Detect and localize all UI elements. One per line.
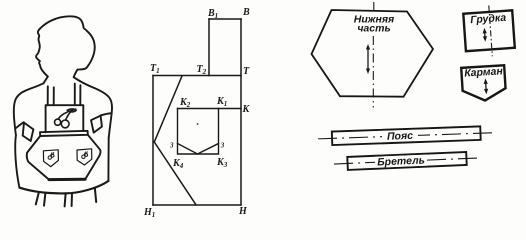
svg-text:Пояс: Пояс [387, 130, 414, 143]
bib cherry motif [55, 109, 77, 128]
right fist [91, 116, 102, 133]
right pocket cherry [82, 151, 88, 158]
svg-text:К3: К3 [216, 157, 228, 169]
left pocket [43, 150, 58, 167]
strap dashdot [334, 158, 482, 164]
child figure [14, 16, 112, 206]
piece hexagon lower part [312, 10, 434, 97]
svg-text:3: 3 [220, 142, 225, 150]
left pocket cherry [48, 152, 54, 159]
wire bib left B1-T2 [208, 19, 210, 76]
piece bib square [463, 4, 515, 58]
bib left strap [48, 86, 54, 105]
hexagon grain dashdot [372, 2, 375, 108]
svg-text:Бретель: Бретель [377, 155, 425, 169]
wire left edge T1-H1 [152, 76, 154, 206]
label belt text [382, 130, 418, 142]
piece strap strip [334, 151, 482, 170]
svg-text:Карман: Карман [464, 65, 504, 79]
dress skirt left [15, 135, 19, 187]
wire bottom line H1-H [153, 204, 241, 206]
waistband [40, 131, 88, 136]
svg-text:К4: К4 [172, 158, 184, 170]
piece pocket pentagon [461, 65, 506, 102]
pattern draft outline [153, 19, 241, 205]
apron hem thick [49, 178, 85, 181]
left fist [23, 123, 34, 141]
hexagon grain arrow [366, 44, 370, 74]
wire side diagonal lower [154, 142, 196, 205]
bib right strap [75, 84, 81, 106]
svg-text:Т: Т [243, 66, 250, 77]
bib grain dashdot [489, 5, 493, 56]
svg-text:К: К [242, 104, 251, 115]
apron skirt hexagon [27, 135, 101, 180]
right shoulder and sleeve [74, 77, 112, 138]
svg-text:К2: К2 [179, 97, 191, 109]
right pocket [77, 149, 92, 165]
svg-text:Т1: Т1 [150, 63, 160, 75]
pocket point lines [178, 144, 219, 155]
wire bib top B1-B [209, 18, 241, 20]
neck front [44, 77, 48, 84]
svg-text:Грудка: Грудка [470, 12, 507, 26]
wire right edge B-H [240, 19, 242, 205]
svg-text:Т2: Т2 [197, 64, 207, 76]
belt dashdot [318, 133, 492, 139]
svg-text:3: 3 [169, 142, 174, 150]
bib outline [46, 105, 84, 132]
legs [36, 188, 96, 207]
piece belt strip [318, 126, 492, 146]
pocket grain arrow [485, 82, 488, 91]
left shoulder and sleeve [14, 83, 44, 135]
bib grain arrow [484, 31, 486, 38]
svg-text:Н1: Н1 [143, 207, 155, 219]
right sleeve hem [101, 113, 112, 115]
svg-text:Н: Н [238, 206, 248, 217]
dress hem [19, 181, 108, 193]
svg-text:К1: К1 [216, 96, 227, 108]
wire hip line K2-K [178, 108, 242, 110]
pocket center dot [197, 123, 199, 125]
dress skirt right [107, 138, 109, 181]
svg-text:В1: В1 [207, 8, 218, 20]
wire side diagonal upper [154, 76, 182, 142]
pocket square K2-K1-K3-K4 [178, 109, 219, 155]
head profile [36, 16, 95, 77]
left sleeve hem [16, 122, 24, 128]
label bib text [467, 12, 510, 25]
wire waist line T1-T [153, 75, 241, 77]
svg-text:часть: часть [357, 22, 390, 34]
label pocket text [464, 67, 502, 78]
label strap text [375, 155, 427, 168]
svg-text:В: В [242, 7, 250, 18]
